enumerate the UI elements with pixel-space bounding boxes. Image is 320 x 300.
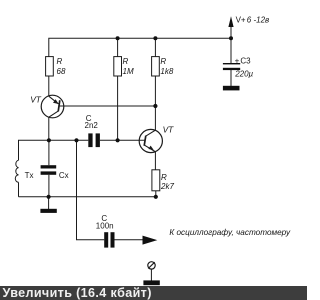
wire VT1 base to VT2 collector node <box>59 105 155 107</box>
ground at tank <box>40 209 56 213</box>
resistor R3 1k8 <box>152 57 174 76</box>
wire C3 bottom lead <box>230 70 232 86</box>
wire V+ stem <box>230 25 232 39</box>
capacitor C 2n2 <box>85 114 100 147</box>
node R2k7 bottom <box>154 195 158 199</box>
node rail-Vplus <box>229 36 233 40</box>
wire coil bottom corner <box>18 182 20 196</box>
capacitor C3 220u electrolytic <box>223 56 254 78</box>
node tank top Cx <box>47 138 51 142</box>
resistor R1 68 <box>46 57 66 76</box>
wire R1M bottom to 2n2 line <box>117 76 119 140</box>
svg-text:R: R <box>57 57 63 66</box>
output arrow to oscilloscope <box>143 228 291 245</box>
transistor Q2 VT2 NPN <box>139 125 174 153</box>
ground at C3 <box>223 86 240 91</box>
svg-text:R: R <box>160 57 166 66</box>
inductor Tx coil <box>15 160 33 182</box>
wire C3 top lead <box>230 38 232 63</box>
svg-text:100n: 100n <box>96 221 114 230</box>
wire tank top / 2n2 line left part <box>19 140 89 160</box>
svg-text:VT: VT <box>30 94 42 104</box>
wire 100n to arrow <box>115 239 145 241</box>
node tank bottom ground <box>47 195 51 199</box>
svg-text:Cx: Cx <box>59 171 69 180</box>
wire top supply rail <box>49 38 231 57</box>
svg-text:6 -12в: 6 -12в <box>247 16 269 25</box>
wire VT1 collector down to tank node <box>48 117 50 141</box>
wire R1k8 bottom to VT2 collector <box>154 76 156 130</box>
svg-text:+: + <box>235 56 240 65</box>
svg-text:R: R <box>161 173 167 182</box>
svg-text:V+: V+ <box>236 16 246 25</box>
wire Cx top lead <box>48 140 50 165</box>
svg-text:К осциллографу, частотомеру: К осциллографу, частотомеру <box>169 228 291 237</box>
wire R1k8 column <box>154 38 156 56</box>
svg-text:VT: VT <box>163 125 175 135</box>
resistor R2 1M <box>114 57 134 76</box>
node rail-R1M <box>116 36 120 40</box>
transistor Q1 VT1 PNP <box>30 94 64 117</box>
capacitor C 100n <box>96 214 115 247</box>
node VT1 base / VT2 collector <box>153 104 157 108</box>
wire R1M column <box>117 38 119 56</box>
wire 2n2 line right part to VT2 base <box>100 139 145 141</box>
svg-text:R: R <box>123 57 129 66</box>
svg-text:C3: C3 <box>240 56 251 65</box>
node rail-R1k8 <box>153 36 157 40</box>
wire Cx bottom lead <box>48 175 50 197</box>
wire VT2 emitter to R2k7 <box>154 152 156 170</box>
capacitor Cx <box>41 165 69 180</box>
wire R68 bottom to VT1 emitter <box>48 76 50 96</box>
wire R2k7 bottom to common <box>155 191 157 197</box>
node output tap <box>74 138 78 142</box>
node R1M bottom <box>116 138 120 142</box>
svg-text:1k8: 1k8 <box>160 67 173 76</box>
power V+ arrow <box>228 16 269 27</box>
wire probe ground stub <box>150 269 152 280</box>
resistor R4 2k7 <box>152 170 175 191</box>
wire output tap column <box>77 140 105 240</box>
svg-text:220µ: 220µ <box>234 69 253 78</box>
svg-text:2k7: 2k7 <box>160 182 174 191</box>
svg-text:1M: 1M <box>123 67 134 76</box>
bottom link bar <box>0 286 307 300</box>
svg-text:Увеличить (16.4 кбайт): Увеличить (16.4 кбайт) <box>3 286 152 300</box>
svg-text:2n2: 2n2 <box>85 121 99 130</box>
wire tank ground stub <box>48 197 50 209</box>
ground at probe <box>143 280 159 285</box>
wire bottom common line <box>19 196 156 198</box>
probe terminal symbol <box>148 262 155 269</box>
svg-text:Tx: Tx <box>25 171 34 180</box>
svg-text:68: 68 <box>57 67 66 76</box>
